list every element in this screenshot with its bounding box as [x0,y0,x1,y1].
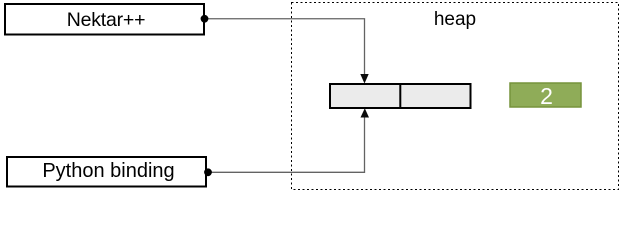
junction dot at Python binding output [204,168,212,176]
heap container (dashed region) [292,3,619,190]
process box Python binding [7,157,206,187]
heap memory cell box (two slots) [330,84,471,108]
wire: Nektar++ to heap cell (elbow, goes right then down) [205,19,365,75]
wire: Python binding to heap cell (elbow, goes right then up) [208,116,365,172]
svg-text:Nektar++: Nektar++ [67,9,146,31]
cell divider [399,83,401,109]
svg-text:Python binding: Python binding [42,160,174,182]
svg-text:2: 2 [540,83,553,109]
green value box [510,83,581,107]
arrowhead down into cell [360,74,368,84]
arrowhead up into cell [361,108,370,117]
svg-text:heap: heap [434,9,476,30]
process box Nektar++ [5,4,204,35]
junction dot at Nektar++ output [201,15,209,23]
